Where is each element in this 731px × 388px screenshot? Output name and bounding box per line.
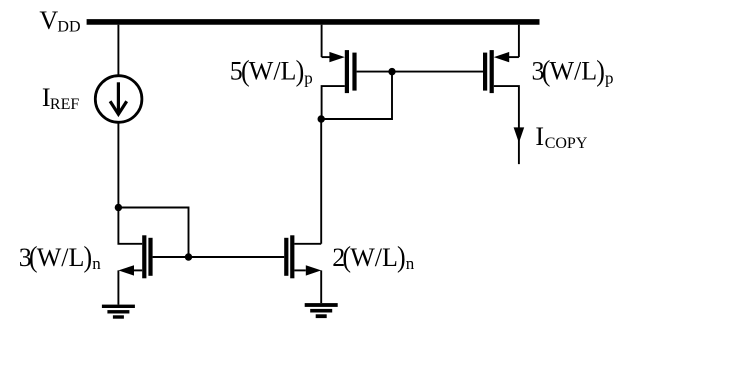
label IREF	[42, 83, 79, 113]
svg-text:DD: DD	[57, 19, 80, 36]
svg-text:W/L: W/L	[37, 243, 85, 272]
svg-text:): )	[84, 241, 93, 274]
wire: node A right and down to gate bus (diode tie)	[118, 208, 188, 258]
label ICOPY	[535, 122, 587, 152]
wire: gate bus M3 to M4	[357, 71, 483, 73]
ground (right)	[305, 303, 338, 318]
node D (junction on PMOS gate bus)	[388, 68, 395, 75]
svg-text:n: n	[406, 254, 415, 273]
wire: M3 drain left and down mid column to M2 drain	[321, 86, 345, 244]
arrow: ICOPY current direction	[514, 127, 525, 142]
node B (junction on NMOS gate bus)	[185, 253, 192, 260]
transistor M2 2(W/L)n	[284, 235, 321, 278]
wire: node D down and left to node C (gate-drain tie)	[321, 72, 392, 119]
node C (M3 drain / M2 drain / tie junction)	[318, 115, 325, 122]
label 3(W/L)n	[19, 241, 102, 274]
svg-text:): )	[596, 55, 605, 88]
svg-text:p: p	[304, 68, 313, 87]
label 3(W/L)p	[532, 55, 614, 88]
svg-text:I: I	[535, 122, 544, 151]
svg-text:): )	[397, 241, 406, 274]
svg-text:V: V	[39, 6, 58, 35]
svg-text:): )	[296, 55, 305, 88]
power rail VDD	[87, 19, 540, 25]
svg-text:W/L: W/L	[249, 57, 297, 86]
label 5(W/L)p	[230, 55, 313, 88]
transistor M4 3(W/L)p	[483, 50, 519, 93]
wire: node A down and right to M1 drain	[118, 208, 142, 244]
transistor M1 3(W/L)n	[118, 235, 152, 278]
transistor M3 5(W/L)p	[322, 50, 357, 93]
svg-text:W/L: W/L	[350, 243, 398, 272]
wire: VDD rail down to IREF top	[117, 25, 119, 76]
svg-text:W/L: W/L	[550, 57, 598, 86]
label VDD	[39, 6, 80, 36]
current source IREF	[95, 76, 142, 123]
wire: M4 drain right and down (ICOPY output)	[494, 86, 519, 164]
wire: VDD rail down to M3 source	[321, 25, 323, 57]
wire: IREF bottom to node A	[117, 123, 119, 208]
wire: M2 source down to ground	[320, 270, 322, 303]
wire: M1 source down to ground	[117, 270, 119, 304]
ground (left)	[102, 305, 135, 319]
svg-text:p: p	[605, 68, 614, 87]
wire: gate bus M1 to M2	[153, 256, 285, 258]
svg-text:COPY: COPY	[545, 135, 588, 152]
label 2(W/L)n	[332, 241, 415, 274]
svg-text:REF: REF	[50, 96, 79, 113]
svg-text:n: n	[92, 254, 101, 273]
node A (IREF / M1 drain-gate junction)	[115, 204, 122, 211]
wire: M2 drain up to mid column	[294, 243, 321, 245]
wire: VDD rail down to M4 source	[518, 25, 520, 57]
